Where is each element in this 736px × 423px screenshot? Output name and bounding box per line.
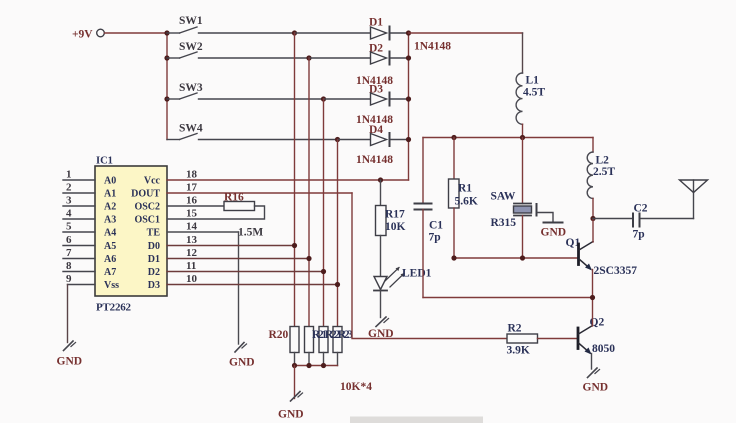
resistor R16 bbox=[224, 192, 263, 239]
svg-text:TE: TE bbox=[147, 228, 161, 239]
wire Q1 collector up bbox=[592, 219, 594, 243]
wire SW1 to D1 anode bbox=[295, 32, 371, 34]
resistor R17 10K bbox=[376, 180, 406, 236]
wire SW2 to D2 anode bbox=[309, 57, 371, 59]
pin 4 stub bbox=[63, 208, 95, 220]
diode D2 bbox=[356, 43, 409, 88]
svg-text:R1: R1 bbox=[458, 183, 472, 195]
svg-text:1: 1 bbox=[66, 169, 72, 181]
svg-text:SW2: SW2 bbox=[179, 41, 203, 53]
svg-text:Vss: Vss bbox=[104, 280, 119, 291]
svg-text:7p: 7p bbox=[633, 229, 645, 241]
svg-text:8: 8 bbox=[66, 260, 72, 272]
IC1 right pin labels Vcc DOUT OSC2 OSC1 TE D0-D3 bbox=[131, 176, 160, 292]
wire TE to ground bbox=[238, 232, 240, 344]
svg-text:IC1: IC1 bbox=[96, 156, 113, 167]
pin 12 D1 wire bbox=[167, 247, 309, 259]
svg-text:3.9K: 3.9K bbox=[507, 345, 530, 357]
resistor R21 bbox=[305, 327, 314, 353]
svg-text:R21R22R23: R21R22R23 bbox=[312, 329, 353, 341]
wire R2 to Q2 base bbox=[538, 338, 577, 340]
node D0 junction bbox=[292, 243, 297, 248]
SAW side electrode plate bbox=[536, 204, 538, 216]
inductor L1 4.5T bbox=[516, 73, 545, 124]
ground LED1 GND bbox=[368, 317, 394, 340]
antenna bbox=[680, 180, 708, 219]
wire LED1 cathode to ground bbox=[380, 291, 382, 318]
wire +9V to SW column bbox=[105, 32, 168, 34]
node R20 bottom junction bbox=[292, 363, 297, 368]
node D2 cathode junction bbox=[406, 55, 411, 60]
node SW2 output junction bbox=[306, 55, 311, 60]
svg-text:OSC2: OSC2 bbox=[134, 202, 160, 213]
wire resistor network bottom join bbox=[295, 353, 338, 366]
wire C1 top lead bbox=[422, 138, 424, 204]
pin 14 TE stub bbox=[167, 221, 239, 233]
svg-text:A4: A4 bbox=[104, 228, 116, 239]
svg-text:+9V: +9V bbox=[72, 29, 93, 41]
svg-text:4.5T: 4.5T bbox=[523, 87, 545, 99]
ground resistor network GND bbox=[278, 392, 304, 421]
svg-text:14: 14 bbox=[186, 221, 198, 233]
pin 11 D2 wire bbox=[167, 260, 324, 272]
IC1 left pin labels A0-A7 Vss bbox=[104, 176, 119, 292]
svg-text:10K*4: 10K*4 bbox=[340, 381, 372, 393]
pin 15 OSC1 stub bbox=[186, 208, 198, 220]
node D1 junction bbox=[306, 256, 311, 261]
switch SW4 bbox=[167, 123, 338, 140]
pin 7 stub bbox=[63, 247, 95, 259]
wire SW2 drop column bbox=[308, 58, 310, 327]
node D1 cathode junction bbox=[406, 30, 411, 35]
wire R16 to OSC1 loop bbox=[167, 206, 265, 219]
svg-text:DOUT: DOUT bbox=[131, 189, 160, 200]
pin 6 stub bbox=[63, 234, 95, 246]
svg-text:SW4: SW4 bbox=[179, 123, 203, 135]
svg-text:11: 11 bbox=[186, 260, 196, 272]
svg-text:12: 12 bbox=[186, 247, 198, 259]
wire SW3 to D3 anode bbox=[324, 98, 371, 100]
svg-text:PT2262: PT2262 bbox=[96, 302, 132, 314]
svg-text:2SC3357: 2SC3357 bbox=[594, 265, 638, 277]
wire L2 bottom lead bbox=[592, 198, 594, 218]
svg-text:A7: A7 bbox=[104, 267, 116, 278]
node SW3 output junction bbox=[321, 96, 326, 101]
wire resistor network to ground bbox=[294, 366, 296, 399]
pin 1 stub bbox=[63, 169, 95, 181]
pin 17 DOUT stub bbox=[167, 182, 352, 194]
svg-text:A1: A1 bbox=[104, 189, 116, 200]
wire L2 top lead bbox=[592, 138, 594, 153]
pin 8 stub bbox=[63, 260, 95, 272]
pin 9 Vss stub bbox=[66, 273, 95, 285]
wire L1 bottom lead bbox=[522, 124, 524, 137]
svg-text:R2: R2 bbox=[508, 323, 522, 335]
wire SW4 to D4 anode bbox=[338, 139, 371, 141]
wire bottom rail C1 to Q1 emitter bbox=[423, 297, 593, 299]
ground TE GND bbox=[229, 343, 255, 369]
wire SAW top lead bbox=[522, 138, 524, 204]
svg-text:LED1: LED1 bbox=[402, 268, 432, 280]
op-amp U1 IC1 PT2262 encoder body bbox=[95, 156, 167, 314]
switch SW1 bbox=[167, 15, 295, 33]
node R21 bottom junction bbox=[306, 363, 311, 368]
svg-text:13: 13 bbox=[186, 234, 198, 246]
svg-text:C1: C1 bbox=[429, 220, 443, 232]
wire oscillator box top rail bbox=[423, 137, 593, 139]
svg-text:6: 6 bbox=[66, 234, 72, 246]
wire Q1 emitter down bbox=[592, 270, 594, 298]
node L1 SAW junction bbox=[520, 135, 525, 140]
svg-text:1N4148: 1N4148 bbox=[356, 154, 393, 166]
svg-text:15: 15 bbox=[186, 208, 198, 220]
svg-text:Vcc: Vcc bbox=[144, 176, 161, 187]
svg-text:5.6K: 5.6K bbox=[455, 196, 478, 208]
svg-text:3: 3 bbox=[66, 195, 72, 207]
wire C1 bottom lead bbox=[422, 210, 424, 298]
svg-text:D3: D3 bbox=[148, 280, 160, 291]
wire L1 top lead bbox=[522, 33, 524, 73]
wire diode OR bus vertical bbox=[408, 33, 410, 180]
wire Vss to ground bbox=[67, 285, 69, 343]
svg-text:A6: A6 bbox=[104, 254, 116, 265]
svg-text:GND: GND bbox=[541, 227, 567, 239]
svg-text:A2: A2 bbox=[104, 202, 116, 213]
svg-text:R17: R17 bbox=[385, 209, 405, 221]
node SAW bottom junction bbox=[520, 255, 525, 260]
svg-text:SW1: SW1 bbox=[179, 15, 203, 27]
ground pin9 GND bbox=[57, 341, 83, 368]
wire R1 top lead bbox=[453, 138, 455, 180]
pin 13 D0 wire bbox=[167, 234, 295, 246]
svg-text:GND: GND bbox=[583, 382, 609, 394]
svg-text:SAW: SAW bbox=[491, 191, 516, 203]
wire SAW bottom lead bbox=[522, 216, 524, 259]
svg-text:GND: GND bbox=[278, 409, 304, 421]
ground SAW GND bar bbox=[541, 223, 567, 239]
pin 5 stub bbox=[63, 221, 95, 233]
resistor R2 3.9K bbox=[507, 323, 538, 357]
wire DOUT down-drop to R2 bbox=[352, 193, 507, 339]
svg-text:SW3: SW3 bbox=[179, 82, 203, 94]
node R1 top junction bbox=[451, 135, 456, 140]
wire switch feed vertical bbox=[166, 33, 168, 140]
node D3 cathode junction bbox=[406, 96, 411, 101]
node SW3 feed junction bbox=[164, 96, 169, 101]
svg-text:2: 2 bbox=[66, 182, 72, 194]
svg-text:1N4148: 1N4148 bbox=[414, 41, 451, 53]
wire Q2 collector up bbox=[592, 298, 594, 327]
LED LED1 bbox=[374, 267, 432, 291]
svg-text:C2: C2 bbox=[634, 203, 648, 215]
diode D4 bbox=[356, 124, 409, 166]
svg-text:18: 18 bbox=[186, 169, 198, 181]
node Q1 emitter Q2 collector junction bbox=[590, 295, 595, 300]
svg-text:7p: 7p bbox=[429, 232, 441, 244]
node SW1 feed junction bbox=[164, 30, 169, 35]
node D3 junction bbox=[335, 282, 340, 287]
transistor Q1 2SC3357 bbox=[566, 237, 638, 277]
wire C2 to antenna bbox=[641, 218, 694, 220]
wire Q2 emitter to ground bbox=[591, 354, 593, 370]
svg-text:10K: 10K bbox=[385, 221, 406, 233]
svg-text:16: 16 bbox=[186, 195, 198, 207]
svg-text:A3: A3 bbox=[104, 215, 116, 226]
wire R17 to LED1 bbox=[380, 236, 382, 277]
svg-text:10: 10 bbox=[186, 273, 198, 285]
switch SW2 bbox=[167, 41, 309, 58]
svg-text:A5: A5 bbox=[104, 241, 116, 252]
resistor R20 bbox=[269, 327, 300, 353]
svg-text:L2: L2 bbox=[596, 155, 610, 167]
svg-text:4: 4 bbox=[66, 208, 72, 220]
wire R1 bottom lead bbox=[453, 208, 455, 258]
diode D3 bbox=[356, 84, 409, 127]
ground Q2 GND bbox=[583, 368, 609, 394]
svg-text:7: 7 bbox=[66, 247, 72, 259]
capacitor C2 7p bbox=[633, 203, 648, 241]
svg-text:A0: A0 bbox=[104, 176, 116, 187]
pin 3 stub bbox=[63, 195, 95, 207]
wire SW4 drop column bbox=[337, 140, 339, 327]
wire L2 junction to C2 bbox=[593, 218, 632, 220]
pin 10 D3 wire bbox=[167, 273, 338, 285]
resistor R1 5.6K bbox=[449, 179, 478, 208]
node D4 cathode junction bbox=[406, 137, 411, 142]
svg-text:17: 17 bbox=[186, 182, 198, 194]
wire SAW electrode to ground bbox=[538, 213, 554, 223]
svg-text:5: 5 bbox=[66, 221, 72, 233]
svg-text:2.5T: 2.5T bbox=[593, 166, 615, 178]
svg-text:L1: L1 bbox=[526, 75, 540, 87]
inductor L2 2.5T bbox=[587, 152, 615, 198]
wire base rail R1 SAW to Q1 bbox=[454, 257, 577, 259]
pin 16 OSC2 stub bbox=[167, 195, 224, 207]
svg-text:9: 9 bbox=[66, 273, 72, 285]
svg-text:D1: D1 bbox=[148, 254, 160, 265]
switch SW3 bbox=[167, 82, 324, 99]
pin 18 Vcc wire to diode bus bbox=[167, 169, 409, 181]
diode D1 bbox=[369, 17, 451, 53]
pin 2 stub bbox=[63, 182, 95, 194]
resonator SAW R315 bbox=[491, 191, 532, 230]
svg-text:D0: D0 bbox=[148, 241, 160, 252]
wire SW3 drop column bbox=[323, 99, 325, 327]
resistor R22 bbox=[319, 327, 328, 353]
node D2 junction bbox=[321, 269, 326, 274]
node R22 bottom junction bbox=[321, 363, 326, 368]
node L2 C2 Q1 collector junction bbox=[590, 216, 595, 221]
node SW2 feed junction bbox=[164, 55, 169, 60]
watermark smudge bbox=[350, 417, 483, 423]
wire SW1 drop column bbox=[294, 33, 296, 327]
svg-text:1.5M: 1.5M bbox=[238, 227, 263, 239]
node R17 tap junction bbox=[378, 177, 383, 182]
svg-text:GND: GND bbox=[57, 356, 83, 368]
node R1 bottom junction bbox=[451, 255, 456, 260]
transistor Q2 8050 bbox=[578, 317, 615, 356]
node SW1 output junction bbox=[292, 30, 297, 35]
resistor R23 bbox=[312, 327, 372, 394]
svg-text:D2: D2 bbox=[148, 267, 160, 278]
wire bus top to L1 bbox=[409, 32, 523, 34]
svg-text:GND: GND bbox=[229, 357, 255, 369]
svg-text:8050: 8050 bbox=[592, 343, 615, 355]
svg-text:R315: R315 bbox=[491, 217, 517, 229]
node SW4 output junction bbox=[335, 137, 340, 142]
svg-text:OSC1: OSC1 bbox=[134, 215, 160, 226]
capacitor C1 7p bbox=[415, 204, 444, 244]
svg-text:R20: R20 bbox=[269, 329, 289, 341]
node +9V supply terminal bbox=[72, 29, 104, 41]
